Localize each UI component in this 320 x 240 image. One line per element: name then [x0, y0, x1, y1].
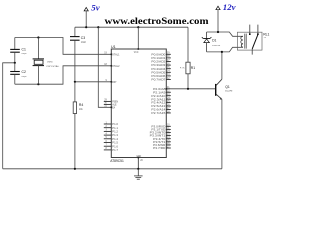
junction collector — [221, 51, 223, 53]
pin 8 P1.7 — [104, 149, 112, 151]
relay coil core — [244, 34, 246, 49]
junction crystal top — [37, 36, 39, 38]
svg-text:RL1: RL1 — [263, 32, 269, 36]
svg-text:VCC: VCC — [134, 50, 139, 54]
junction R4 ground — [74, 168, 76, 170]
wire RST — [75, 81, 111, 83]
relay contact NO post — [257, 25, 259, 34]
diode D1 1N4148 — [206, 32, 208, 39]
svg-text:CRYSTAL: CRYSTAL — [46, 65, 60, 68]
svg-text:P2.1/A9: P2.1/A9 — [153, 90, 166, 94]
svg-text:P1.6: P1.6 — [112, 144, 118, 148]
pin joint — [138, 48, 140, 50]
pin joint — [166, 88, 168, 90]
junction RST — [74, 81, 76, 83]
relay RL1 box — [237, 32, 262, 50]
junction C1-C2 — [14, 62, 16, 64]
crystal — [37, 38, 39, 59]
svg-text:22pF: 22pF — [22, 76, 28, 78]
pin 16 P3.6/WR — [166, 144, 171, 146]
pin 25 P2.4/A12 — [166, 102, 171, 104]
svg-text:P2.7/A15: P2.7/A15 — [151, 111, 166, 115]
svg-text:P1.0: P1.0 — [112, 122, 118, 126]
IC U1 AT89C51 body — [111, 49, 166, 158]
transistor Q1 emitter stroke — [216, 94, 222, 99]
pin 12 P3.2/INT0 — [166, 132, 171, 134]
pin 1 P1.0 — [104, 123, 112, 125]
transistor Q1 collector stroke — [216, 79, 222, 85]
wire ground rail — [3, 168, 222, 170]
wire D1 top — [207, 32, 238, 36]
junction VCC — [137, 26, 139, 28]
svg-text:C2: C2 — [22, 70, 26, 74]
pin joint — [111, 81, 113, 83]
junction 5v stem — [85, 26, 87, 28]
pin 7 P1.6 — [104, 145, 112, 147]
svg-text:P2.5/A13: P2.5/A13 — [151, 104, 166, 108]
pin joint — [111, 65, 113, 67]
junction crystal bottom — [37, 83, 39, 85]
svg-text:10uF: 10uF — [81, 42, 87, 44]
wire P2.0 to base — [171, 88, 215, 90]
svg-text:P1.1: P1.1 — [112, 126, 118, 130]
wire 5v stem — [85, 11, 87, 27]
pin 37 P0.2/AD2 — [166, 61, 171, 63]
svg-text:XTAL2: XTAL2 — [112, 64, 120, 68]
pin 17 P3.7/RD — [166, 147, 171, 149]
svg-text:P0.7/AD7: P0.7/AD7 — [151, 78, 166, 82]
pin 20 GND wire — [137, 158, 139, 169]
ground symbol — [137, 169, 139, 176]
svg-text:P1.3: P1.3 — [112, 133, 118, 137]
wire R1 top — [187, 27, 189, 62]
pin 28 P2.7/A15 — [166, 112, 171, 114]
junction EA pullup — [97, 26, 99, 28]
pin 13 P3.3/INT1 — [166, 135, 171, 137]
pin 30 ALE — [104, 103, 112, 105]
pin 15 P3.5/T1 — [166, 141, 171, 143]
svg-text:P2.4/A12: P2.4/A12 — [151, 101, 166, 105]
relay contact NC post — [249, 25, 251, 34]
pin 3 P1.2 — [104, 130, 112, 132]
svg-text:P1.4: P1.4 — [112, 137, 118, 141]
svg-text:C3: C3 — [81, 36, 85, 40]
resistor R1 — [186, 62, 190, 74]
svg-text:1MHz: 1MHz — [47, 61, 53, 63]
resistor R4 — [74, 82, 76, 102]
pin 21 P2.0/A8 — [166, 88, 171, 90]
svg-text:P0.2/AD2: P0.2/AD2 — [151, 60, 166, 64]
svg-text:5v: 5v — [91, 2, 99, 12]
junction 12v — [217, 31, 219, 33]
capacitor C3 — [74, 27, 76, 36]
wire collector — [221, 52, 223, 79]
pin 23 P2.2/A10 — [166, 95, 171, 97]
pin 39 P0.0/AD0 — [166, 53, 171, 55]
power symbol 12v — [216, 6, 220, 10]
svg-text:D1: D1 — [212, 38, 216, 42]
svg-text:C1: C1 — [22, 47, 26, 51]
pin 11 P3.1/TXD — [166, 128, 171, 130]
svg-text:P3.7/RD: P3.7/RD — [153, 146, 165, 150]
pin 35 P0.4/AD4 — [166, 68, 171, 70]
svg-text:P2.0/A8: P2.0/A8 — [153, 87, 166, 91]
svg-text:RST: RST — [112, 80, 117, 84]
relay switch arm — [252, 35, 258, 49]
svg-text:U1: U1 — [111, 45, 116, 49]
junction GND pin — [137, 168, 139, 170]
pin 27 P2.6/A14 — [166, 109, 171, 111]
pin 29 PSEN — [104, 100, 112, 102]
pin 5 P1.4 — [104, 138, 112, 140]
wire EA pull-up — [98, 27, 111, 107]
svg-text:www.electroSome.com: www.electroSome.com — [105, 16, 209, 27]
svg-text:P1.5: P1.5 — [112, 141, 118, 145]
wire XTAL2 net — [15, 66, 112, 84]
wire D1 bottom — [207, 47, 238, 52]
pin 26 P2.5/A13 — [166, 105, 171, 107]
pin joint — [111, 107, 113, 109]
svg-text:P0.4/AD4: P0.4/AD4 — [151, 67, 166, 71]
pin joint — [138, 157, 140, 159]
svg-text:P0.1/AD1: P0.1/AD1 — [151, 56, 166, 60]
svg-text:12v: 12v — [223, 2, 236, 12]
capacitor C1 — [14, 38, 16, 50]
junction R1 base — [187, 88, 189, 90]
svg-text:P0.6/AD6: P0.6/AD6 — [151, 74, 166, 78]
wire XTAL1 net — [15, 38, 112, 55]
relay coil — [241, 36, 243, 47]
pin 36 P0.3/AD3 — [166, 64, 171, 66]
wire VCC — [137, 27, 139, 49]
svg-text:P1.7: P1.7 — [112, 148, 118, 152]
pin 24 P2.3/A11 — [166, 98, 171, 100]
svg-text:XTAL1: XTAL1 — [112, 52, 120, 56]
transistor Q1 base bar — [215, 84, 217, 96]
pin 22 P2.1/A9 — [166, 91, 171, 93]
power symbol 5v — [84, 7, 88, 10]
wire cap midpoint to ground — [3, 63, 15, 169]
pin 6 P1.5 — [104, 142, 112, 144]
svg-text:BC548: BC548 — [225, 90, 233, 92]
pin 38 P0.1/AD1 — [166, 57, 171, 59]
pin 10 P3.0/RXD — [166, 125, 171, 127]
pin 14 P3.4/T0 — [166, 138, 171, 140]
svg-text:P2.2/A10: P2.2/A10 — [151, 94, 166, 98]
svg-text:P0.5/AD5: P0.5/AD5 — [151, 70, 166, 74]
svg-text:P0.0/AD0: P0.0/AD0 — [151, 52, 166, 56]
svg-text:P1.2: P1.2 — [112, 130, 118, 134]
wire 12v stem — [217, 10, 219, 32]
pin 2 P1.1 — [104, 127, 112, 129]
wire emitter — [221, 99, 223, 169]
pin 32 P0.7/AD7 — [166, 79, 171, 81]
pin joint — [111, 54, 113, 56]
wire 5v rail — [75, 26, 188, 28]
pin 4 P1.3 — [104, 134, 112, 136]
pin 34 P0.5/AD5 — [166, 71, 171, 73]
svg-text:EA: EA — [112, 105, 115, 109]
svg-text:R1: R1 — [191, 66, 195, 70]
svg-text:P2.3/A11: P2.3/A11 — [151, 97, 166, 101]
svg-text:P2.6/A14: P2.6/A14 — [151, 108, 166, 112]
svg-text:P0.3/AD3: P0.3/AD3 — [151, 63, 166, 67]
svg-text:1N4148: 1N4148 — [212, 45, 221, 47]
capacitor C2 — [14, 63, 16, 72]
svg-text:Q1: Q1 — [225, 85, 230, 89]
svg-text:AT89C51: AT89C51 — [110, 159, 124, 163]
svg-text:R4: R4 — [79, 103, 83, 107]
svg-text:22pF: 22pF — [22, 53, 28, 55]
pin 33 P0.6/AD6 — [166, 75, 171, 77]
relay common wire — [251, 49, 253, 55]
